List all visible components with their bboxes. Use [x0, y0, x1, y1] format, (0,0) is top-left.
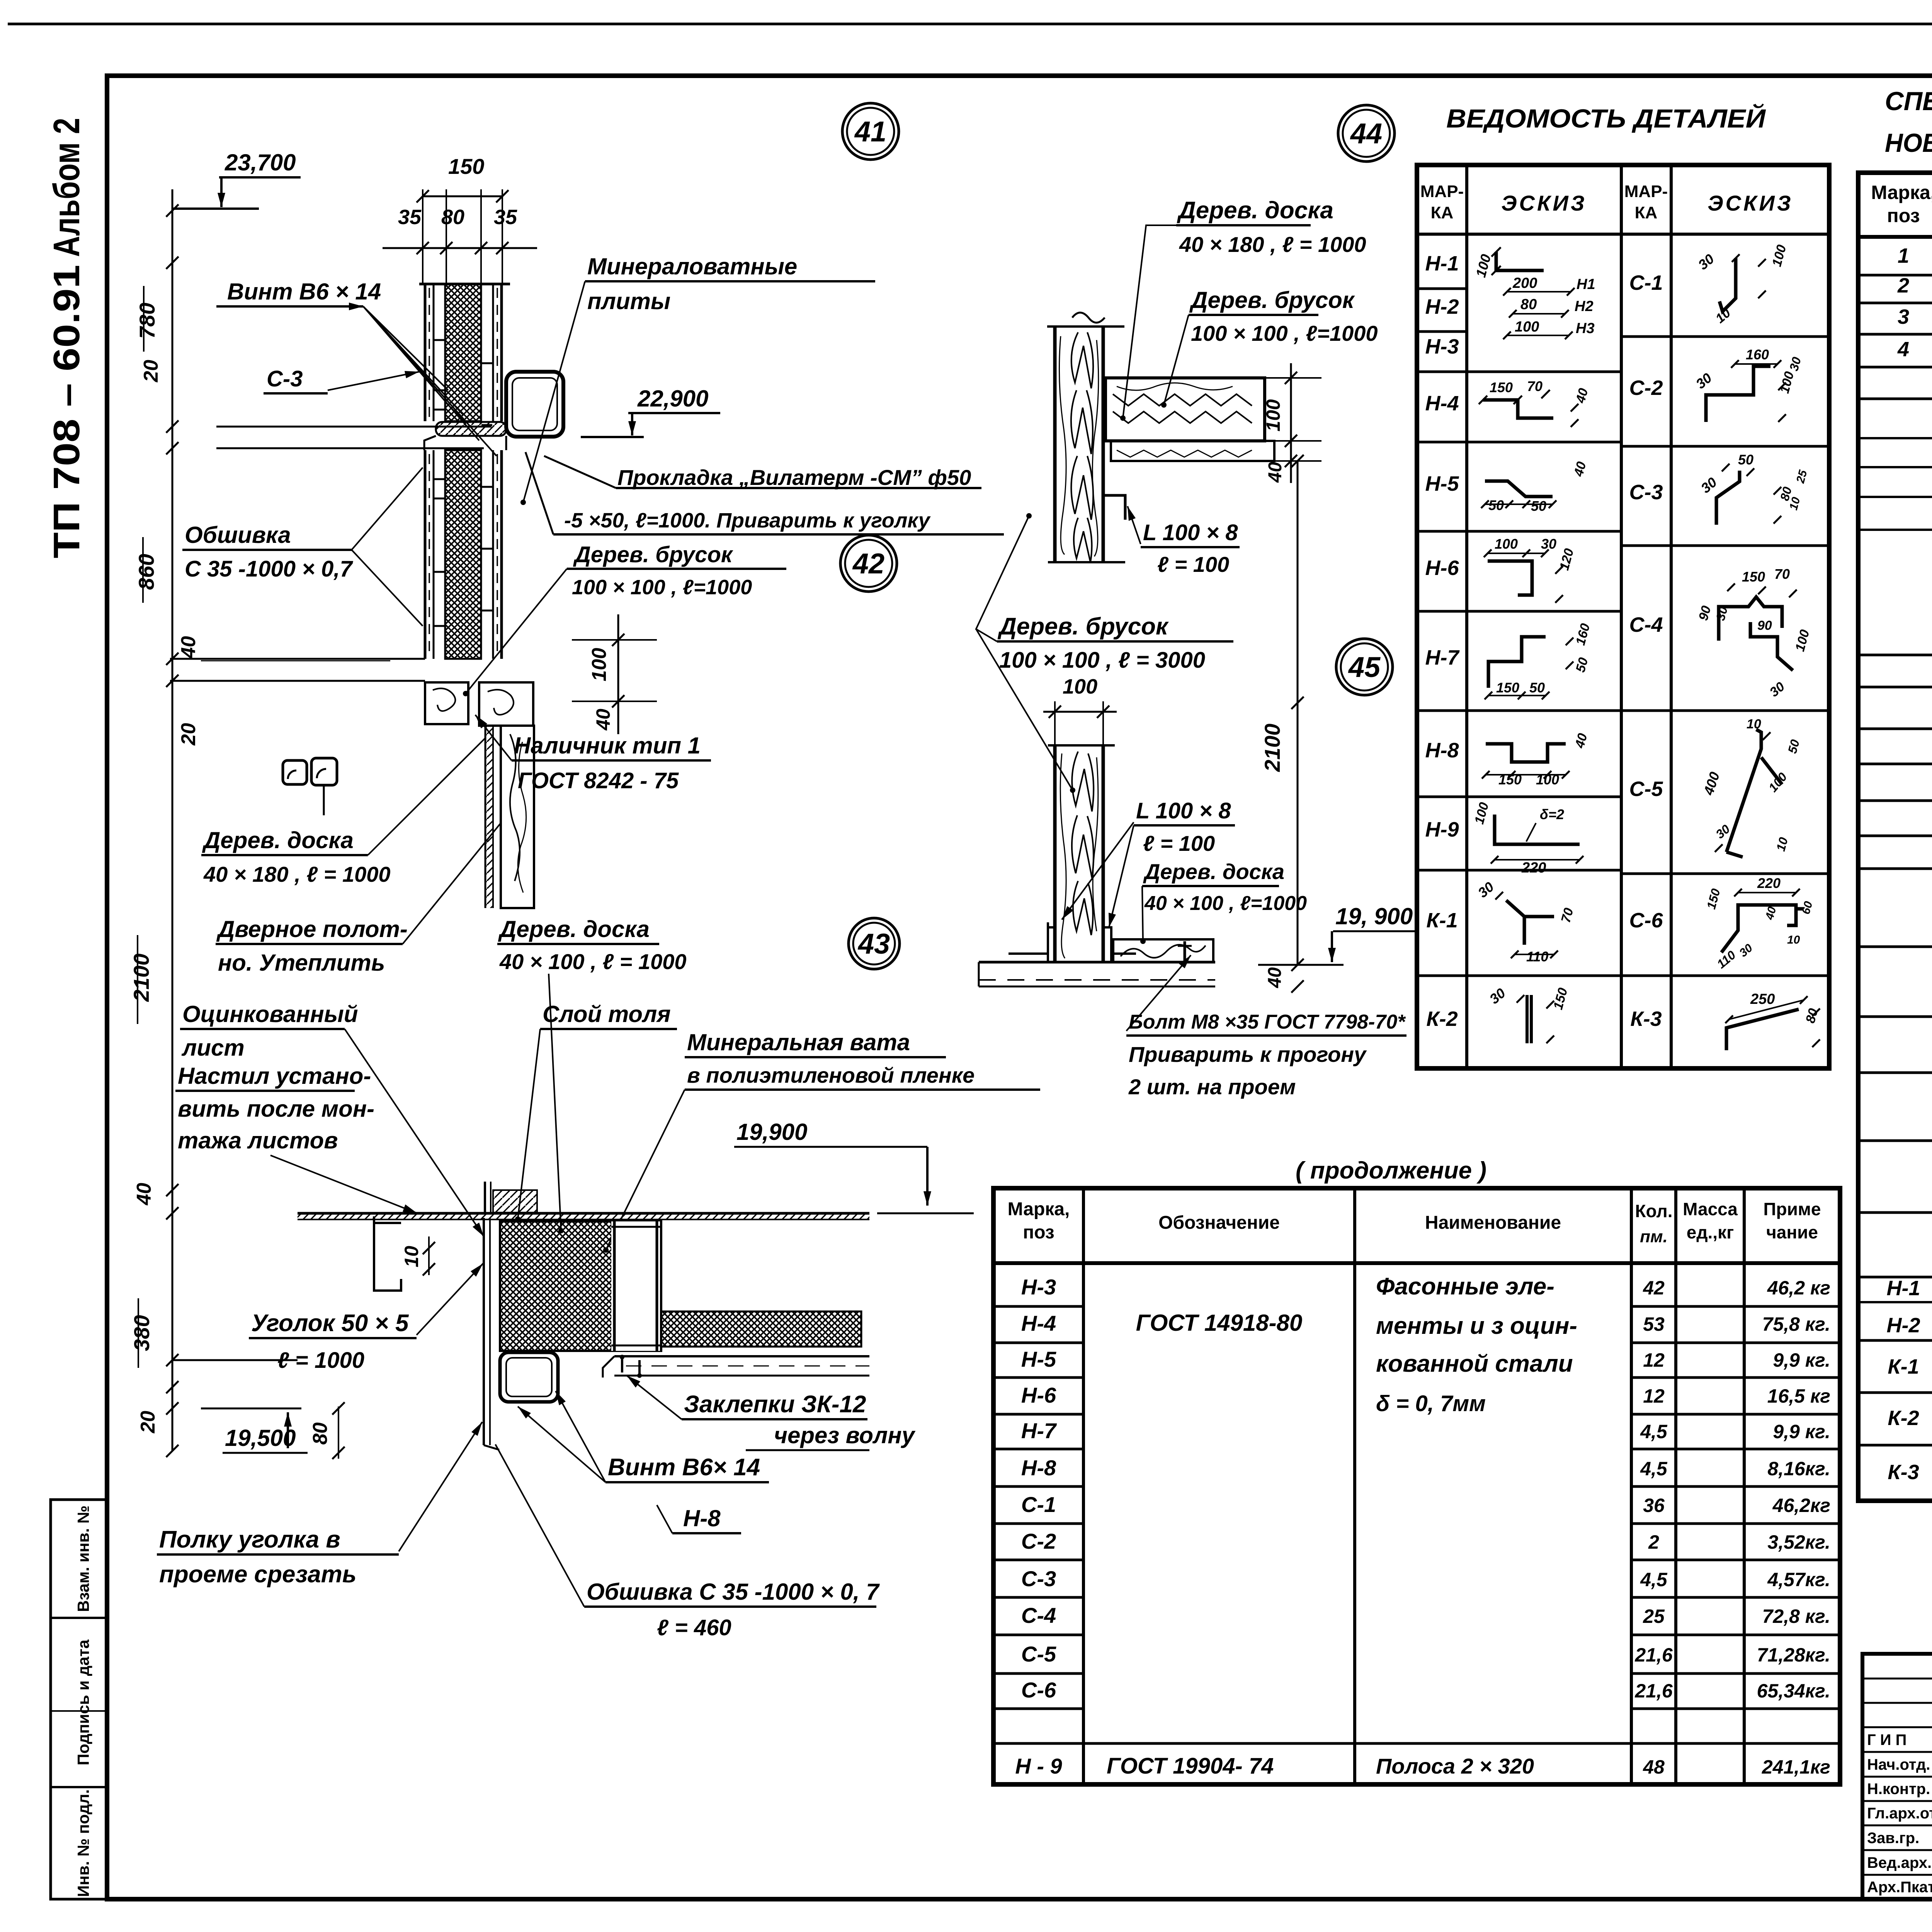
svg-text:19,900: 19,900 — [736, 1119, 808, 1145]
node circle 44 — [1338, 105, 1395, 162]
svg-text:380: 380 — [129, 1315, 154, 1351]
svg-text:С-3: С-3 — [1021, 1566, 1056, 1591]
svg-text:150: 150 — [1496, 680, 1519, 696]
svg-text:Альбом 2: Альбом 2 — [46, 118, 87, 257]
svg-text:2100: 2100 — [1260, 724, 1284, 772]
svg-text:241,1кг: 241,1кг — [1762, 1756, 1830, 1778]
svg-text:4,5: 4,5 — [1640, 1569, 1668, 1590]
svg-text:Дерев. брусок: Дерев. брусок — [997, 613, 1169, 640]
node43 right sheet lines — [614, 1355, 869, 1357]
sketch Н-7 — [1488, 637, 1546, 688]
sketch Н-8 — [1486, 744, 1566, 762]
node44 right dims 100/40 — [1290, 363, 1292, 483]
svg-text:21,6: 21,6 — [1634, 1644, 1673, 1666]
svg-text:Н-1: Н-1 — [1425, 252, 1459, 275]
svg-text:80: 80 — [441, 206, 464, 229]
svg-text:пм.: пм. — [1640, 1227, 1668, 1246]
svg-text:Н - 9: Н - 9 — [1015, 1754, 1062, 1778]
svg-text:35: 35 — [398, 206, 422, 229]
svg-text:10: 10 — [1787, 934, 1800, 946]
svg-text:через волну: через волну — [774, 1422, 916, 1448]
sketch Н-9 — [1495, 815, 1580, 844]
svg-text:4,5: 4,5 — [1640, 1421, 1668, 1442]
svg-text:Н-5: Н-5 — [1021, 1347, 1056, 1371]
svg-text:2: 2 — [1648, 1531, 1659, 1553]
sketch Н-5 — [1485, 481, 1553, 497]
svg-text:Н-5: Н-5 — [1425, 472, 1459, 495]
svg-text:3: 3 — [1898, 305, 1909, 328]
svg-text:40: 40 — [1265, 462, 1286, 483]
svg-text:100 × 100 , ℓ = 3000: 100 × 100 , ℓ = 3000 — [999, 648, 1205, 673]
node44 lower plank — [1111, 441, 1274, 461]
svg-text:Н1: Н1 — [1577, 276, 1595, 293]
svg-text:Прокладка „Вилатерм -СМ” ф50: Прокладка „Вилатерм -СМ” ф50 — [617, 465, 971, 490]
svg-text:100: 100 — [1515, 319, 1539, 335]
node circle 41 — [842, 103, 899, 160]
svg-text:ГОСТ 14918-80: ГОСТ 14918-80 — [1136, 1310, 1303, 1336]
svg-text:40 × 180 , ℓ = 1000: 40 × 180 , ℓ = 1000 — [1179, 232, 1366, 257]
svg-text:42: 42 — [1643, 1277, 1665, 1299]
svg-text:220: 220 — [1521, 860, 1546, 876]
sketch С-5 — [1726, 730, 1782, 857]
svg-text:71,28кг.: 71,28кг. — [1757, 1644, 1830, 1666]
svg-text:δ=2: δ=2 — [1540, 806, 1564, 822]
node45 wood plank on deck — [1113, 939, 1213, 962]
svg-text:Инв. № подл.: Инв. № подл. — [74, 1789, 92, 1897]
svg-text:Оцинкованный: Оцинкованный — [182, 1001, 358, 1027]
svg-text:10: 10 — [401, 1246, 422, 1267]
node45 post — [1048, 744, 1115, 747]
node43 vertical sheet — [483, 1218, 485, 1445]
svg-text:150: 150 — [1490, 379, 1513, 395]
wall sheathing left — [424, 284, 427, 421]
svg-text:НОВОГО ОГРАЖДЕНИЯ ПОМЕЩЕНИЯ: НОВОГО ОГРАЖДЕНИЯ ПОМЕЩЕНИЯ ФИЛЬТРОВ — [1885, 128, 1932, 158]
svg-text:L 100 × 8: L 100 × 8 — [1143, 520, 1238, 545]
paper top edge artifact — [8, 23, 1932, 26]
svg-text:чание: чание — [1766, 1222, 1818, 1242]
svg-text:860: 860 — [134, 554, 158, 590]
svg-text:вить после мон-: вить после мон- — [178, 1096, 374, 1122]
svg-text:Н-7: Н-7 — [1425, 646, 1460, 669]
svg-text:40 × 100 , ℓ = 1000: 40 × 100 , ℓ = 1000 — [499, 949, 687, 974]
node circle 43 — [849, 918, 900, 969]
svg-text:Наличник тип 1: Наличник тип 1 — [514, 733, 701, 759]
svg-text:65,34кг.: 65,34кг. — [1757, 1680, 1830, 1702]
svg-text:Вед.арх.: Вед.арх. — [1867, 1854, 1932, 1871]
svg-text:Минеральная вата: Минеральная вата — [687, 1029, 910, 1055]
svg-text:L 100 × 8: L 100 × 8 — [1136, 798, 1231, 823]
svg-text:Г И П: Г И П — [1867, 1731, 1906, 1748]
node44 upper post — [1047, 325, 1124, 328]
svg-text:Н-8: Н-8 — [1021, 1456, 1056, 1480]
node43 rivet marks — [621, 1357, 623, 1372]
svg-text:40 × 180 , ℓ = 1000: 40 × 180 , ℓ = 1000 — [203, 862, 391, 886]
svg-text:Дерев. доска: Дерев. доска — [1177, 197, 1333, 224]
wall sheathing right — [492, 284, 494, 421]
svg-text:72,8 кг.: 72,8 кг. — [1762, 1605, 1830, 1627]
svg-text:С-2: С-2 — [1021, 1529, 1056, 1553]
svg-text:К-3: К-3 — [1630, 1007, 1662, 1031]
svg-text:9,9 кг.: 9,9 кг. — [1773, 1421, 1830, 1442]
svg-text:2100: 2100 — [129, 954, 153, 1002]
lower wall section node42 — [424, 450, 427, 659]
svg-text:С-5: С-5 — [1021, 1642, 1056, 1666]
svg-text:менты и з оцин-: менты и з оцин- — [1376, 1313, 1577, 1339]
svg-text:40: 40 — [1265, 967, 1285, 988]
svg-text:100: 100 — [588, 648, 611, 682]
svg-text:1: 1 — [1898, 244, 1909, 267]
node43 tie line — [172, 1359, 298, 1361]
svg-text:36: 36 — [1643, 1495, 1665, 1516]
svg-text:К-3: К-3 — [1888, 1461, 1919, 1484]
node circle 42 — [840, 535, 897, 592]
svg-text:( продолжение ): ( продолжение ) — [1296, 1157, 1486, 1184]
svg-text:Арх.Пкат.: Арх.Пкат. — [1867, 1879, 1932, 1896]
svg-text:С-3: С-3 — [1629, 481, 1663, 504]
svg-text:100: 100 — [1063, 675, 1097, 698]
svg-text:Дерев. брусок: Дерев. брусок — [573, 542, 733, 567]
svg-text:10: 10 — [1747, 717, 1761, 731]
mineral wool core — [445, 284, 481, 421]
node43 central insulated block — [500, 1221, 661, 1351]
svg-text:40: 40 — [592, 709, 614, 731]
node43 deck line — [298, 1212, 869, 1215]
svg-text:40: 40 — [177, 636, 200, 659]
svg-text:Масса: Масса — [1683, 1199, 1738, 1219]
sketch К-2 — [1527, 995, 1531, 1043]
svg-text:Полоса 2 × 320: Полоса 2 × 320 — [1376, 1754, 1534, 1778]
svg-text:150: 150 — [1498, 772, 1522, 787]
svg-text:Марка,: Марка, — [1871, 182, 1932, 203]
svg-text:ед.,кг: ед.,кг — [1687, 1222, 1734, 1242]
junction tie lines node41 — [216, 426, 492, 428]
svg-text:Наименование: Наименование — [1425, 1213, 1561, 1233]
svg-text:150: 150 — [448, 154, 484, 179]
svg-text:22,900: 22,900 — [637, 386, 709, 412]
svg-text:в полиэтиленовой пленке: в полиэтиленовой пленке — [687, 1063, 975, 1087]
square tube purlin — [506, 372, 563, 437]
left dim chain — [172, 189, 173, 1451]
svg-text:К-1: К-1 — [1426, 909, 1458, 932]
svg-text:плиты: плиты — [587, 288, 670, 314]
sketch table — [1417, 165, 1829, 1068]
svg-text:Винт В6 × 14: Винт В6 × 14 — [227, 279, 381, 304]
node43 right wool strip — [661, 1311, 861, 1347]
svg-text:2 шт. на проем: 2 шт. на проем — [1128, 1075, 1296, 1099]
node43 square tube below — [500, 1352, 558, 1402]
svg-text:ℓ = 100: ℓ = 100 — [1157, 552, 1229, 577]
svg-text:С-1: С-1 — [1629, 271, 1663, 294]
svg-text:50: 50 — [1531, 498, 1546, 514]
svg-text:50: 50 — [1529, 680, 1545, 696]
svg-text:Полку уголка в: Полку уголка в — [159, 1526, 340, 1553]
svg-text:200: 200 — [1512, 275, 1537, 291]
node42 square tubes — [283, 760, 307, 784]
svg-text:48: 48 — [1643, 1756, 1665, 1778]
svg-text:12: 12 — [1643, 1349, 1665, 1371]
svg-text:Болт М8 ×35 ГОСТ 7798-70*: Болт М8 ×35 ГОСТ 7798-70* — [1129, 1011, 1406, 1033]
svg-text:23,700: 23,700 — [224, 150, 296, 175]
svg-text:4,5: 4,5 — [1640, 1458, 1668, 1480]
svg-text:К-1: К-1 — [1888, 1355, 1919, 1378]
title block — [1862, 1654, 1932, 1899]
sketch С-1 — [1719, 258, 1736, 311]
svg-text:4,57кг.: 4,57кг. — [1767, 1569, 1830, 1590]
svg-text:50: 50 — [1738, 452, 1753, 468]
svg-text:42: 42 — [852, 548, 884, 580]
svg-text:Н-7: Н-7 — [1021, 1418, 1057, 1443]
svg-text:Уголок 50 × 5: Уголок 50 × 5 — [251, 1310, 409, 1337]
svg-text:тажа листов: тажа листов — [178, 1128, 338, 1153]
svg-text:Н-8: Н-8 — [1425, 739, 1459, 762]
svg-text:МАР-: МАР- — [1420, 182, 1464, 201]
svg-text:С 35 -1000 × 0,7: С 35 -1000 × 0,7 — [185, 556, 353, 582]
sketch Н-6 — [1488, 561, 1532, 595]
svg-text:С-4: С-4 — [1021, 1603, 1056, 1628]
svg-text:Н-6: Н-6 — [1021, 1383, 1056, 1407]
svg-text:4: 4 — [1897, 338, 1909, 361]
svg-text:110: 110 — [1526, 949, 1548, 964]
svg-text:100: 100 — [1262, 399, 1284, 432]
level 19,500 — [201, 1408, 301, 1410]
node42 horizontal lines (40 gap) — [170, 658, 425, 660]
svg-text:С-2: С-2 — [1629, 376, 1663, 400]
svg-text:Н-3: Н-3 — [1425, 335, 1459, 358]
svg-text:35: 35 — [494, 206, 517, 229]
svg-text:МАР-: МАР- — [1624, 182, 1668, 201]
svg-text:40 × 100 , ℓ=1000: 40 × 100 , ℓ=1000 — [1144, 892, 1307, 915]
sketch С-4 — [1719, 597, 1793, 670]
svg-text:Взам. инв. №: Взам. инв. № — [74, 1505, 92, 1612]
svg-text:12: 12 — [1643, 1385, 1665, 1407]
svg-text:20: 20 — [177, 723, 200, 746]
svg-text:Винт В6× 14: Винт В6× 14 — [608, 1454, 760, 1481]
svg-text:3,52кг.: 3,52кг. — [1767, 1531, 1830, 1553]
svg-text:Нач.отд.: Нач.отд. — [1867, 1756, 1930, 1773]
svg-text:41: 41 — [854, 116, 886, 148]
sketch Н-4 — [1483, 400, 1553, 418]
svg-text:Н.контр.: Н.контр. — [1867, 1781, 1930, 1798]
svg-text:45: 45 — [1348, 651, 1381, 683]
svg-text:ЭСКИЗ: ЭСКИЗ — [1501, 191, 1587, 215]
svg-text:Приварить к прогону: Приварить к прогону — [1129, 1042, 1367, 1066]
svg-text:Н-6: Н-6 — [1425, 556, 1459, 580]
svg-text:С-3: С-3 — [267, 366, 303, 391]
left margin stamp boxes — [51, 1500, 107, 1899]
svg-text:25: 25 — [1643, 1605, 1665, 1627]
node45 2100 dim — [1297, 461, 1299, 965]
svg-text:Н2: Н2 — [1575, 298, 1594, 315]
svg-text:Фасонные эле-: Фасонные эле- — [1376, 1273, 1554, 1300]
svg-text:30: 30 — [1541, 536, 1556, 552]
svg-text:20: 20 — [137, 1411, 159, 1434]
node45 bolt — [1184, 941, 1186, 962]
svg-text:поз: поз — [1887, 205, 1920, 226]
svg-text:20: 20 — [140, 360, 162, 383]
node circle 45 — [1336, 639, 1393, 695]
svg-text:С-6: С-6 — [1629, 909, 1663, 932]
svg-text:2: 2 — [1897, 274, 1909, 297]
svg-text:δ = 0, 7мм: δ = 0, 7мм — [1376, 1391, 1486, 1416]
svg-text:-5 ×50, ℓ=1000. Приварить к уг: -5 ×50, ℓ=1000. Приварить к уголку — [564, 509, 931, 532]
svg-text:100 × 100 , ℓ=1000: 100 × 100 , ℓ=1000 — [572, 576, 752, 599]
door leaf — [485, 726, 486, 908]
svg-text:К-2: К-2 — [1888, 1406, 1919, 1430]
svg-text:80: 80 — [309, 1422, 332, 1445]
svg-text:К-2: К-2 — [1426, 1007, 1458, 1031]
svg-text:ВЕДОМОСТЬ ДЕТАЛЕЙ: ВЕДОМОСТЬ ДЕТАЛЕЙ — [1446, 103, 1766, 133]
node43 I-beam white channel — [611, 1221, 660, 1351]
svg-text:46,2кг: 46,2кг — [1772, 1495, 1830, 1516]
svg-text:9,9 кг.: 9,9 кг. — [1773, 1349, 1830, 1371]
svg-text:90: 90 — [1757, 618, 1772, 633]
svg-text:Слой толя: Слой толя — [543, 1001, 671, 1027]
svg-text:21,6: 21,6 — [1634, 1680, 1673, 1702]
svg-text:ℓ = 460: ℓ = 460 — [657, 1615, 731, 1640]
svg-text:ГОСТ 19904- 74: ГОСТ 19904- 74 — [1107, 1753, 1274, 1779]
svg-text:Дерев. доска: Дерев. доска — [498, 916, 650, 942]
svg-text:Дерев. доска: Дерев. доска — [202, 827, 354, 853]
svg-text:780: 780 — [135, 303, 159, 338]
svg-text:ТП 708 – 60.91: ТП 708 – 60.91 — [46, 265, 87, 558]
svg-text:8,16кг.: 8,16кг. — [1767, 1458, 1830, 1480]
svg-text:150: 150 — [1742, 569, 1765, 585]
svg-text:43: 43 — [857, 928, 890, 960]
svg-text:70: 70 — [1527, 378, 1543, 394]
svg-text:Н-9: Н-9 — [1425, 818, 1459, 841]
svg-text:46,2 кг: 46,2 кг — [1767, 1277, 1830, 1299]
specification table (начало) — [1858, 173, 1932, 1501]
node43 left C-channel — [374, 1216, 401, 1291]
svg-text:Н-8: Н-8 — [683, 1505, 721, 1531]
svg-text:40: 40 — [133, 1183, 155, 1206]
svg-text:ГОСТ 8242 - 75: ГОСТ 8242 - 75 — [518, 768, 679, 793]
svg-text:250: 250 — [1750, 991, 1775, 1007]
svg-text:Марка,: Марка, — [1008, 1199, 1070, 1219]
svg-text:Н-2: Н-2 — [1886, 1314, 1920, 1337]
svg-text:Настил устано-: Настил устано- — [178, 1063, 371, 1089]
svg-text:Дверное полот-: Дверное полот- — [216, 916, 408, 942]
svg-text:С-4: С-4 — [1629, 613, 1663, 636]
sketch С-3 — [1716, 471, 1740, 525]
svg-text:проеме срезать: проеме срезать — [159, 1561, 357, 1588]
svg-text:160: 160 — [1746, 347, 1769, 362]
svg-text:КА: КА — [1431, 203, 1454, 222]
svg-text:50: 50 — [1488, 497, 1504, 513]
svg-text:но. Утеплить: но. Утеплить — [218, 950, 385, 976]
svg-text:С-6: С-6 — [1021, 1678, 1056, 1702]
svg-text:Гл.арх.отд.: Гл.арх.отд. — [1867, 1805, 1932, 1822]
node41 wall top cap — [419, 283, 510, 286]
svg-text:75,8 кг.: 75,8 кг. — [1762, 1313, 1830, 1335]
svg-text:Н-1: Н-1 — [1886, 1277, 1920, 1300]
sketch Н-1..Н-3 — [1496, 252, 1544, 270]
svg-text:Н-3: Н-3 — [1021, 1275, 1056, 1299]
svg-text:Зав.гр.: Зав.гр. — [1867, 1830, 1919, 1847]
svg-text:Приме: Приме — [1763, 1199, 1821, 1219]
svg-text:ℓ = 100: ℓ = 100 — [1143, 831, 1215, 855]
svg-text:Обозначение: Обозначение — [1158, 1213, 1280, 1233]
svg-text:Н-2: Н-2 — [1425, 295, 1459, 318]
svg-text:С-1: С-1 — [1021, 1492, 1056, 1517]
svg-text:ℓ = 1000: ℓ = 1000 — [277, 1348, 364, 1373]
svg-text:Дерев. доска: Дерев. доска — [1143, 859, 1284, 884]
svg-text:поз: поз — [1023, 1222, 1054, 1243]
svg-text:КА: КА — [1635, 203, 1658, 222]
наличник wood blocks — [425, 682, 468, 724]
svg-text:16,5 кг: 16,5 кг — [1767, 1385, 1830, 1407]
svg-text:Н-4: Н-4 — [1021, 1311, 1056, 1335]
svg-text:Минераловатные: Минераловатные — [587, 253, 797, 279]
svg-text:44: 44 — [1350, 117, 1382, 150]
node44 horizontal plank — [1105, 378, 1265, 441]
svg-text:Кол.: Кол. — [1635, 1201, 1672, 1221]
sketch С-6 — [1721, 905, 1804, 952]
continuation table — [993, 1188, 1840, 1784]
sketch С-2 — [1706, 366, 1770, 422]
svg-text:19, 900: 19, 900 — [1335, 903, 1413, 929]
svg-text:Обшивка: Обшивка — [185, 522, 291, 548]
svg-text:СПЕЦИФИКАЦИЯ ЭЛЕМЕНТОВ К СХЕМЕ: СПЕЦИФИКАЦИЯ ЭЛЕМЕНТОВ К СХЕМЕ РАСПОЛОЖЕ… — [1885, 87, 1932, 116]
node45 base assembly — [979, 961, 1215, 964]
svg-text:100: 100 — [1495, 536, 1518, 552]
svg-text:Обшивка С 35 -1000 × 0, 7: Обшивка С 35 -1000 × 0, 7 — [587, 1579, 880, 1605]
svg-text:100 × 100 , ℓ=1000: 100 × 100 , ℓ=1000 — [1191, 321, 1378, 345]
svg-text:Н-4: Н-4 — [1425, 392, 1459, 415]
svg-text:70: 70 — [1774, 566, 1790, 582]
svg-text:80: 80 — [1520, 296, 1537, 313]
svg-text:Подпись и дата: Подпись и дата — [74, 1639, 92, 1765]
node44 angle L100x8 — [1103, 495, 1125, 520]
svg-text:Заклепки ЗК-12: Заклепки ЗК-12 — [684, 1391, 866, 1418]
svg-text:кованной стали: кованной стали — [1376, 1350, 1573, 1377]
right small dims node42 — [617, 614, 619, 734]
svg-text:Дерев. брусок: Дерев. брусок — [1189, 287, 1355, 313]
svg-text:19,500: 19,500 — [225, 1425, 296, 1451]
gasket at junction — [436, 422, 506, 436]
svg-text:53: 53 — [1643, 1313, 1665, 1335]
svg-text:220: 220 — [1757, 875, 1781, 891]
svg-text:лист: лист — [181, 1035, 245, 1061]
svg-text:ЭСКИЗ: ЭСКИЗ — [1708, 191, 1793, 215]
svg-text:Н3: Н3 — [1576, 320, 1595, 337]
svg-text:С-5: С-5 — [1629, 777, 1663, 801]
sketch К-1 — [1506, 900, 1554, 945]
sketch К-3 — [1726, 1009, 1799, 1050]
